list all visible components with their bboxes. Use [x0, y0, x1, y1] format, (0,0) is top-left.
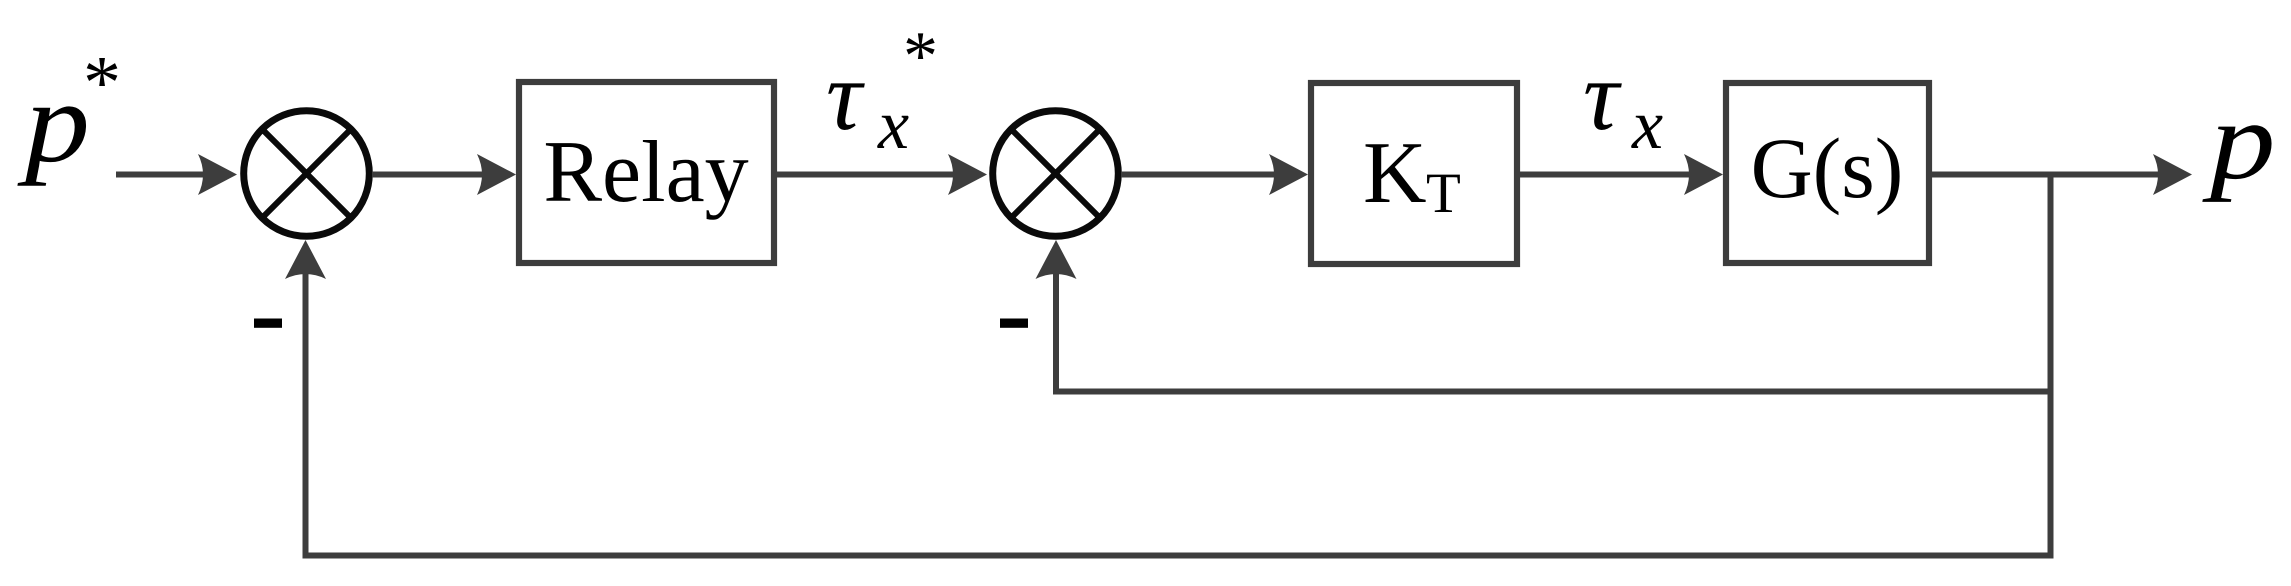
wire inner feedback horizontal [1056, 389, 2053, 395]
svg-text:G(s): G(s) [1751, 120, 1904, 216]
svg-text:p: p [17, 57, 90, 186]
block G(s) [1726, 83, 1929, 263]
minus sign at S2 [1000, 319, 1028, 328]
wire feedback tap vertical at x=2050 [2048, 175, 2054, 559]
summing junction S2 [993, 111, 1119, 237]
svg-text:*: * [83, 41, 121, 125]
block Relay [519, 82, 774, 263]
wire Relay to summing junction S2 [774, 172, 955, 178]
svg-text:K: K [1363, 125, 1427, 222]
wire G(s) to output p [1929, 172, 2160, 178]
svg-text:Relay: Relay [543, 124, 748, 221]
wire outer feedback horizontal [305, 553, 2053, 559]
wire S1 to Relay [372, 172, 485, 178]
svg-text:τ: τ [826, 40, 865, 151]
svg-text:*: * [903, 18, 938, 95]
svg-text:τ: τ [1583, 40, 1622, 151]
summing junction S1 [244, 111, 370, 237]
wire KT to G(s) [1517, 172, 1692, 178]
wire inner feedback vertical into S2 [1053, 268, 1059, 395]
svg-text:p: p [2201, 79, 2275, 203]
wire outer feedback vertical into S1 [303, 268, 309, 559]
svg-text:T: T [1426, 162, 1461, 225]
minus sign at S1 [254, 319, 282, 328]
block KT [1311, 83, 1517, 264]
wire S2 to KT [1121, 172, 1277, 178]
svg-text:x: x [1631, 87, 1663, 164]
wire input to summing junction S1 [116, 172, 205, 178]
svg-text:x: x [877, 87, 909, 164]
